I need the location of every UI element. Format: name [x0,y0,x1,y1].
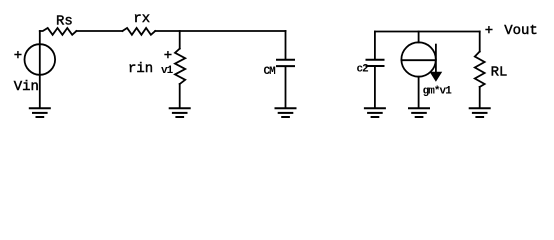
arrow of current source [435,45,437,73]
wire junction down to rin [179,31,181,49]
wire corner down to C2 [374,32,376,59]
wire Rs to rx [76,30,122,32]
ground below current source [409,108,429,117]
wire rx to CM corner [155,30,285,32]
wire corner down to CM [285,31,287,59]
capacitor CM [277,60,294,66]
svg-text:RL: RL [491,64,508,80]
svg-text:rx: rx [133,11,150,27]
svg-text:Rs: Rs [56,14,73,30]
resistor rin [175,49,185,84]
wire CM to ground [285,67,287,108]
svg-text:c2: c2 [357,63,369,75]
wire rail down to current source [418,32,420,43]
svg-text:CM: CM [264,66,277,78]
wire current source to ground [418,77,420,108]
ground below RL [470,108,490,117]
resistor Rs [40,28,77,35]
svg-text:rin: rin [128,61,153,77]
svg-text:Vin: Vin [14,79,39,95]
ground below CM [276,108,296,117]
wire corner down to RL [479,32,481,52]
svg-text:+: + [164,48,172,64]
resistor rx [122,28,155,35]
wire top rail right circuit [375,31,480,33]
svg-text:gm*v1: gm*v1 [423,85,453,97]
capacitor C2 [367,60,384,66]
wire rin to ground [179,84,181,108]
svg-text:+: + [14,48,22,64]
ground below C2 [365,108,385,117]
svg-text:Vout: Vout [504,23,538,39]
wire RL to ground [479,87,481,108]
wire C2 to ground [374,67,376,108]
wire vertical through Vin source [39,31,41,108]
ground below rin [170,108,190,117]
voltage source Vin [25,44,56,75]
svg-text:v1: v1 [161,65,174,77]
current source gm*v1 [401,42,435,76]
svg-text:+: + [485,23,493,39]
resistor RL [475,52,485,87]
ground below Vin [30,108,50,117]
